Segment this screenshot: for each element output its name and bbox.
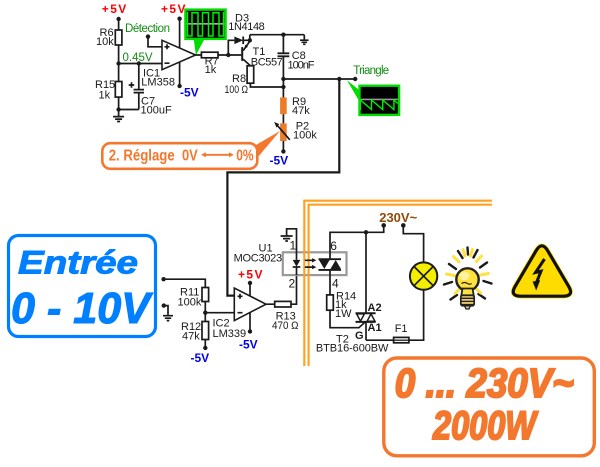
svg-text:A2: A2 bbox=[368, 302, 382, 314]
node R11/R12/IC2 bbox=[203, 302, 234, 322]
-5V supply (IC2) bbox=[239, 312, 258, 352]
junction C7 top bbox=[137, 61, 141, 65]
input wire bbox=[161, 277, 205, 288]
node R15/C7 bottom bbox=[116, 107, 120, 111]
svg-text:0 ... 230V~: 0 ... 230V~ bbox=[395, 360, 574, 406]
svg-text:0V: 0V bbox=[182, 148, 198, 165]
transistor T1 BC557 bbox=[241, 41, 283, 68]
wire R8 bottom to node bbox=[250, 83, 283, 87]
triac T2 BTB16-600BW bbox=[316, 232, 389, 354]
top wire to C8/ground bbox=[250, 33, 304, 37]
svg-text:100uF: 100uF bbox=[141, 105, 172, 117]
-5V supply (IC1) bbox=[177, 62, 198, 99]
resistor R12 bbox=[181, 321, 209, 343]
svg-text:Triangle: Triangle bbox=[353, 65, 389, 77]
svg-text:+5V: +5V bbox=[161, 2, 186, 16]
ground (top right) bbox=[300, 35, 309, 45]
svg-text:BC557: BC557 bbox=[251, 57, 283, 69]
svg-text:2000W: 2000W bbox=[432, 404, 538, 448]
-5V supply (P2) bbox=[270, 141, 289, 168]
resistor R13 bbox=[266, 275, 299, 332]
node Détection bbox=[125, 23, 170, 47]
wire triangle node to IC2 + input bbox=[227, 79, 339, 296]
node R8/R9 bbox=[281, 79, 285, 97]
output range label 0...230V~ 2000W bbox=[384, 358, 595, 456]
svg-text:-5V: -5V bbox=[239, 338, 258, 352]
gate wire R14 to T2 bbox=[330, 310, 365, 328]
svg-text:BTB16-600BW: BTB16-600BW bbox=[316, 342, 389, 354]
svg-text:-5V: -5V bbox=[191, 351, 210, 365]
svg-text:-5V: -5V bbox=[270, 154, 289, 168]
resistor R6 bbox=[96, 27, 122, 48]
svg-text:1: 1 bbox=[290, 238, 297, 252]
scope thumbnail square wave bbox=[185, 10, 225, 39]
capacitor C8 bbox=[278, 35, 315, 79]
node Triangle terminal bbox=[353, 65, 389, 81]
svg-text:6: 6 bbox=[330, 239, 337, 253]
-5V supply (R12) bbox=[191, 340, 210, 366]
svg-text:A1: A1 bbox=[368, 322, 382, 334]
resistor R14 bbox=[327, 290, 356, 320]
optocoupler U1 MOC3023 box bbox=[234, 243, 347, 276]
node triac branch bbox=[364, 230, 368, 234]
svg-text:-5V: -5V bbox=[180, 85, 199, 99]
svg-text:10k: 10k bbox=[96, 36, 114, 48]
svg-text:MOC3023: MOC3023 bbox=[234, 252, 283, 264]
pin 6 wire to mains bbox=[330, 225, 384, 253]
resistor R7 bbox=[196, 52, 242, 76]
svg-text:Entrée: Entrée bbox=[18, 245, 138, 281]
svg-text:1N4148: 1N4148 bbox=[228, 21, 264, 33]
+5V supply (IC2) bbox=[238, 268, 263, 297]
svg-text:47k: 47k bbox=[182, 331, 200, 343]
op-amp IC1 LM358 bbox=[141, 40, 195, 88]
wire +5V to R6 and down to R15 bbox=[118, 19, 120, 82]
LED inside U1 bbox=[293, 252, 301, 275]
node D3/T1 emitter bbox=[248, 35, 252, 43]
+5V supply rail label (left) bbox=[102, 2, 127, 21]
light bulb clipart bbox=[444, 248, 492, 310]
svg-text:1W: 1W bbox=[335, 308, 352, 320]
resistor R9 bbox=[280, 96, 310, 117]
mains terminal right bbox=[401, 223, 424, 262]
svg-text:100k: 100k bbox=[293, 130, 317, 142]
svg-text:F1: F1 bbox=[395, 323, 408, 335]
svg-text:+5V: +5V bbox=[102, 2, 127, 16]
+5V supply (IC1) bbox=[161, 2, 186, 48]
svg-text:G: G bbox=[355, 330, 364, 342]
node Triangle junction bbox=[337, 77, 341, 81]
pin 4 wire bbox=[330, 275, 339, 295]
svg-text:0%: 0% bbox=[236, 148, 254, 165]
resistor R11 bbox=[178, 287, 209, 309]
Entrée 0-10V label box bbox=[9, 236, 156, 337]
wire R9 to P2 bbox=[282, 114, 284, 123]
node R7 output bbox=[226, 53, 230, 57]
resistor R15 bbox=[95, 79, 122, 102]
svg-text:LM358: LM358 bbox=[141, 77, 175, 89]
node 0.45V bbox=[116, 52, 152, 66]
resistor R8 bbox=[225, 66, 254, 96]
node C8 bottom / triangle wire bbox=[281, 77, 355, 81]
op-amp IC2 LM339 bbox=[213, 288, 267, 340]
scope thumbnail sawtooth bbox=[360, 86, 400, 115]
capacitor C7 bbox=[129, 64, 172, 117]
triac inside U1 bbox=[319, 252, 342, 275]
svg-text:4: 4 bbox=[332, 277, 339, 291]
svg-text:470 Ω: 470 Ω bbox=[272, 320, 299, 332]
wire node to IC1 inverting input bbox=[119, 63, 162, 65]
ground (below R15) bbox=[113, 110, 124, 122]
mains terminal left bbox=[381, 223, 386, 228]
svg-text:2. Réglage: 2. Réglage bbox=[109, 148, 175, 165]
svg-text:100 Ω: 100 Ω bbox=[225, 84, 249, 96]
isolation barrier (orange) bbox=[303, 200, 492, 366]
svg-text:100nF: 100nF bbox=[288, 59, 315, 71]
pin 1 wire + ground bbox=[281, 229, 297, 253]
potentiometer P2 bbox=[274, 121, 317, 142]
fuse F1 bbox=[366, 290, 424, 343]
svg-text:1k: 1k bbox=[99, 90, 111, 102]
svg-text:0 - 10V: 0 - 10V bbox=[11, 284, 154, 333]
scope pointer (square wave) bbox=[194, 40, 204, 56]
callout bubble 2. Réglage bbox=[102, 131, 280, 169]
wire R15 bottom bbox=[119, 97, 139, 109]
svg-text:1k: 1k bbox=[205, 64, 217, 76]
scope pointer (sawtooth) bbox=[347, 80, 360, 102]
svg-text:47k: 47k bbox=[292, 105, 310, 117]
warning triangle bbox=[513, 246, 570, 296]
svg-text:2: 2 bbox=[289, 277, 296, 291]
svg-text:+5V: +5V bbox=[238, 268, 263, 282]
svg-text:Détection: Détection bbox=[125, 23, 170, 35]
coupling arrows bbox=[305, 258, 316, 269]
diode D3 1N4148 bbox=[228, 13, 264, 56]
svg-text:100k: 100k bbox=[178, 297, 202, 309]
input ground reference bbox=[162, 303, 173, 320]
svg-text:230V~: 230V~ bbox=[379, 210, 417, 225]
lamp bbox=[410, 262, 437, 289]
